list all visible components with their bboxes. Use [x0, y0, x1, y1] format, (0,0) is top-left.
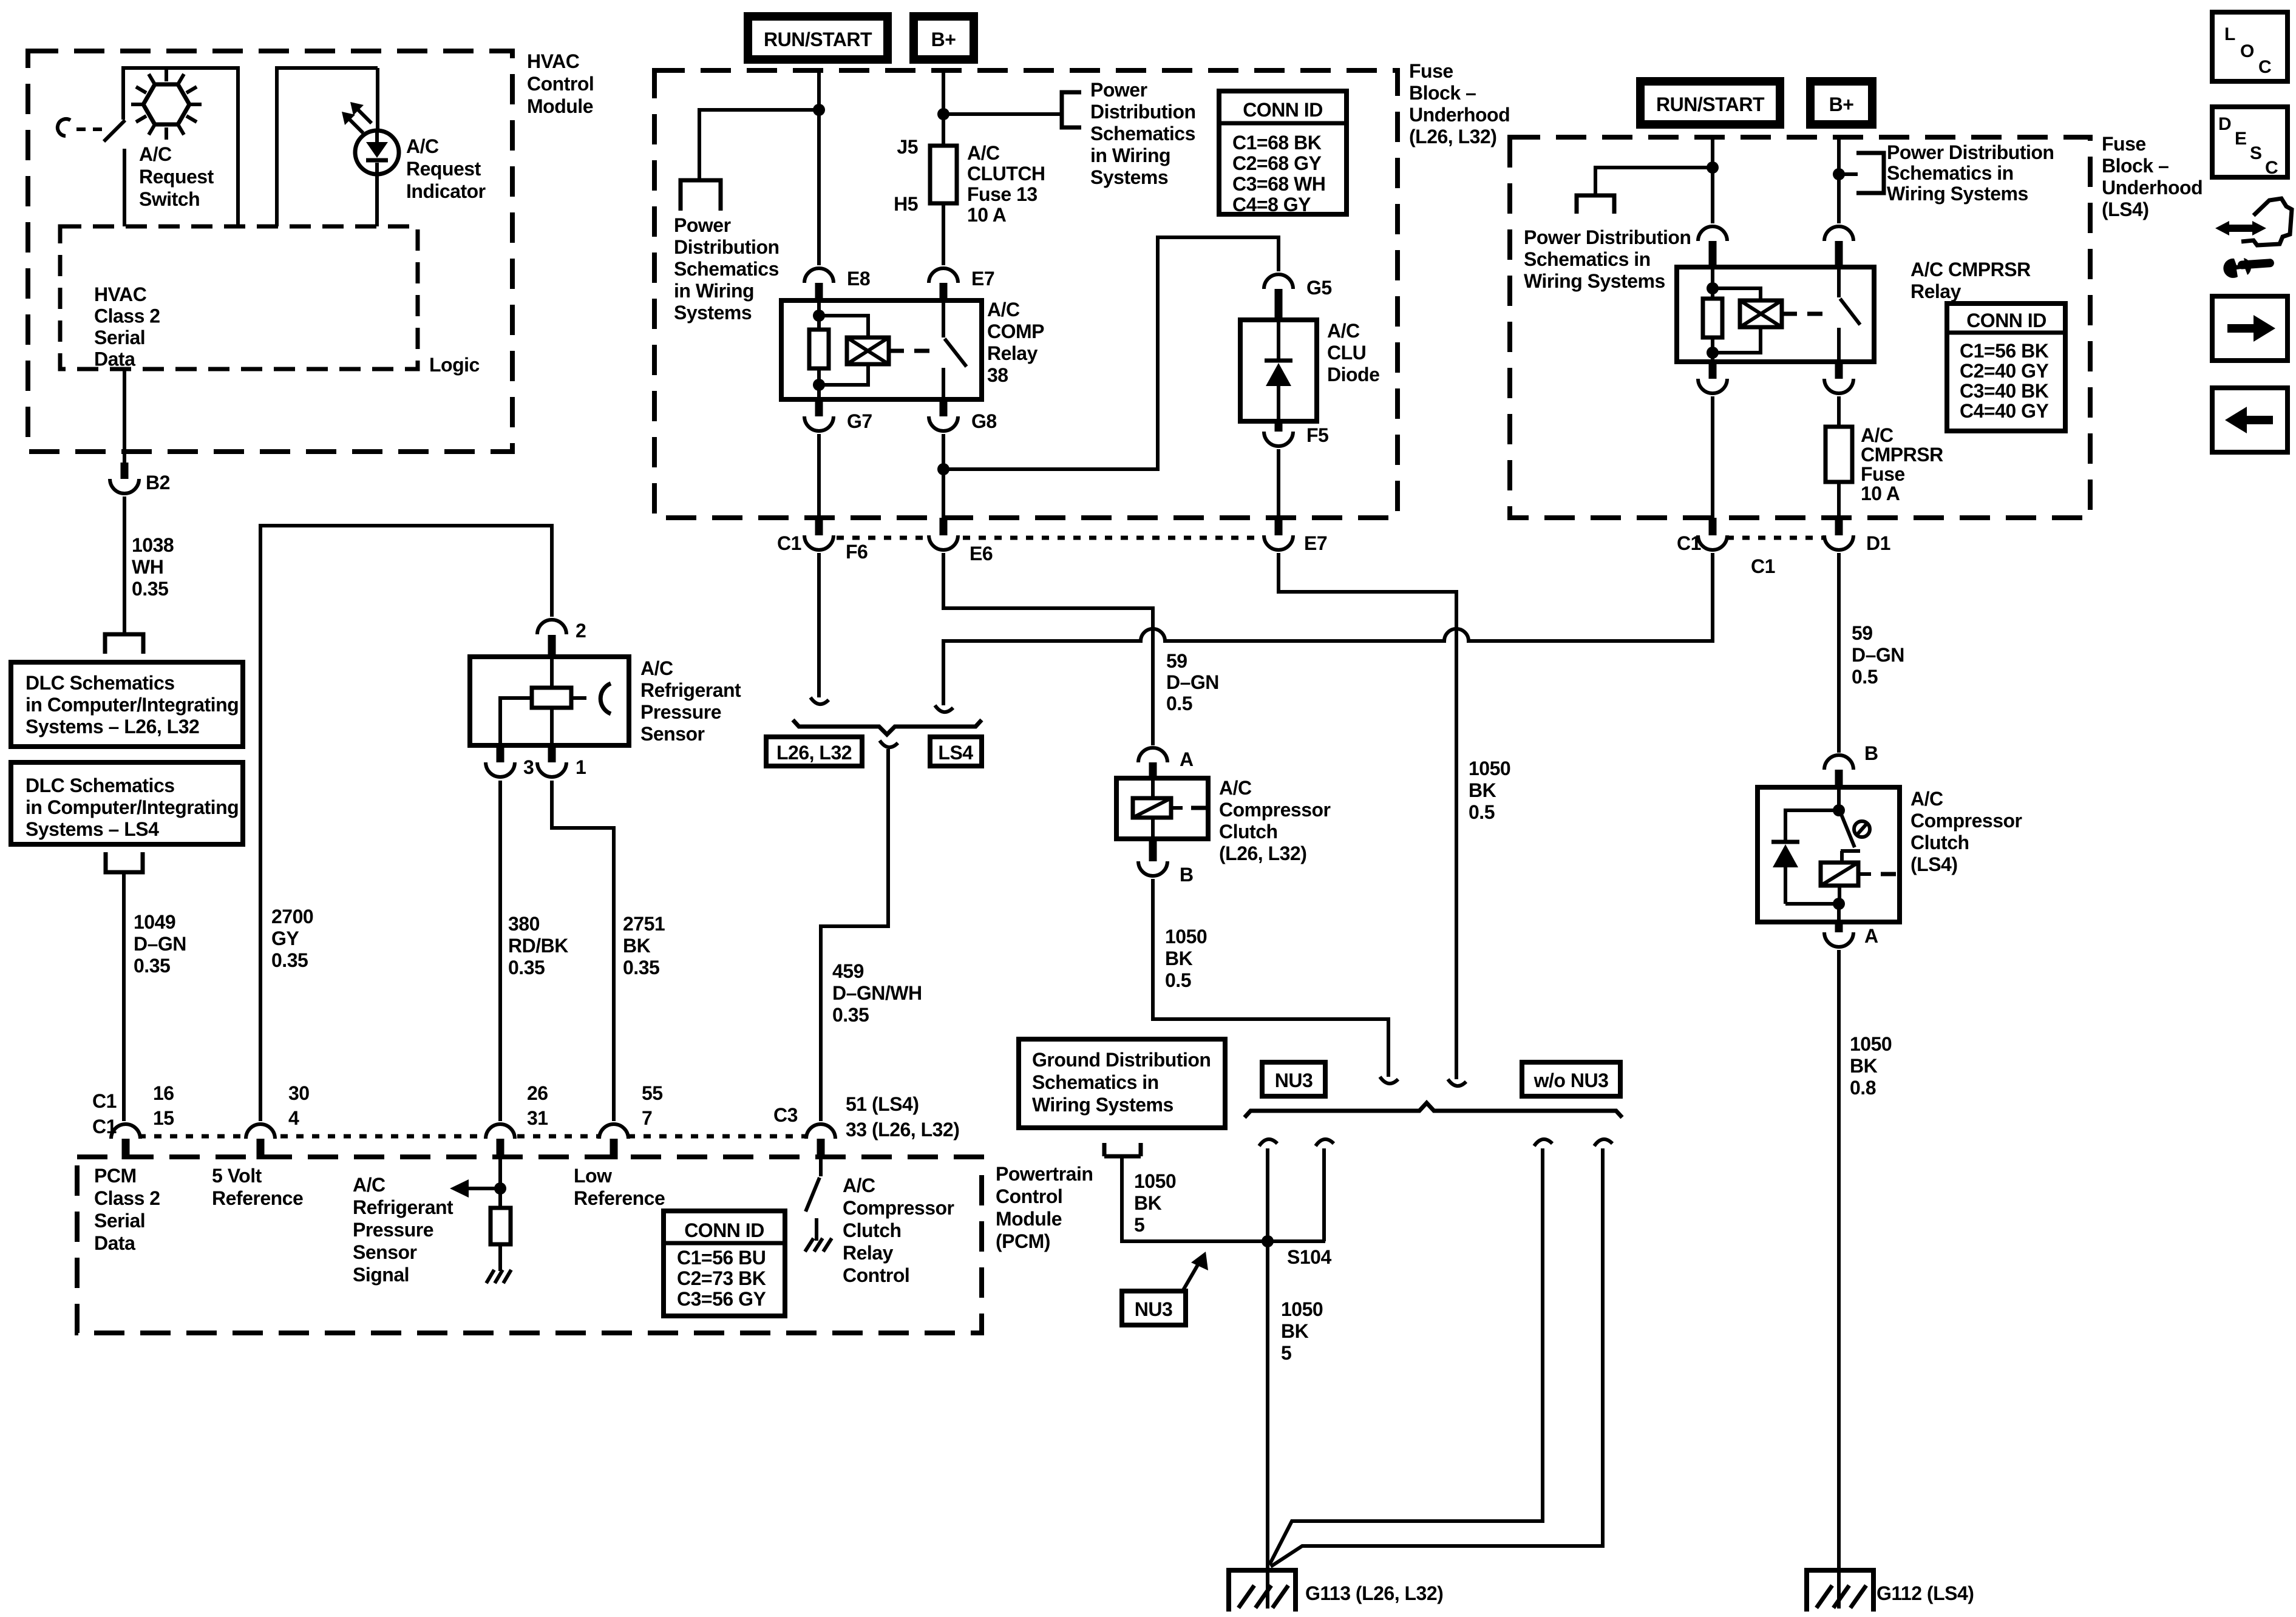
- DLC Schematics box LS4: [11, 762, 243, 844]
- svg-text:G112 (LS4): G112 (LS4): [1877, 1582, 1974, 1604]
- option tag NU3 (top): [1262, 1062, 1325, 1096]
- svg-text:0.35: 0.35: [508, 957, 545, 978]
- svg-text:C3=56 GY: C3=56 GY: [677, 1288, 766, 1310]
- svg-text:Systems – LS4: Systems – LS4: [25, 818, 159, 840]
- svg-text:55: 55: [642, 1082, 663, 1104]
- svg-text:A/C: A/C: [967, 142, 1000, 164]
- Fuse Block Underhood (L26,L32) dashed box: [654, 60, 1510, 518]
- svg-text:G113 (L26, L32): G113 (L26, L32): [1305, 1582, 1443, 1604]
- connector C1 (right block): [1677, 518, 1775, 577]
- svg-text:Block –: Block –: [1409, 82, 1476, 104]
- svg-text:RD/BK: RD/BK: [508, 935, 568, 957]
- connector B of clutch (LS4): [1824, 742, 1878, 788]
- svg-text:C: C: [2258, 57, 2272, 77]
- hook start of 459 wire: [880, 741, 898, 747]
- svg-text:A/C: A/C: [1861, 424, 1894, 446]
- wire 380 RD/BK 0.35: [500, 781, 568, 1121]
- back arrow icon box: [2212, 388, 2288, 452]
- A/C Request Switch S1: [104, 68, 238, 226]
- svg-text:E8: E8: [847, 268, 870, 290]
- svg-text:E7: E7: [971, 268, 994, 290]
- node: B+ branch junction (right): [1833, 168, 1845, 180]
- svg-text:Sensor: Sensor: [640, 723, 705, 745]
- svg-text:B: B: [1180, 864, 1194, 886]
- PCM connector pin 30/4: [246, 1082, 310, 1159]
- wire fuse to D1: [1837, 482, 1841, 519]
- svg-text:Block –: Block –: [2102, 155, 2169, 177]
- connector G5: [1264, 274, 1332, 321]
- PCM pressure sensor signal network: [450, 1158, 511, 1283]
- svg-text:5 Volt: 5 Volt: [212, 1165, 262, 1187]
- svg-text:D1: D1: [1866, 532, 1890, 554]
- svg-text:NU3: NU3: [1135, 1298, 1173, 1320]
- svg-text:(LS4): (LS4): [2102, 198, 2149, 220]
- svg-text:10 A: 10 A: [1861, 483, 1900, 504]
- svg-text:BK: BK: [1281, 1320, 1309, 1342]
- wire RUN/START to relay E8: [817, 70, 821, 265]
- svg-text:0.5: 0.5: [1165, 969, 1191, 991]
- svg-text:D: D: [2218, 114, 2232, 134]
- svg-text:in Wiring: in Wiring: [1090, 144, 1170, 166]
- svg-text:Serial: Serial: [94, 327, 145, 348]
- wire G8 to E6: [942, 434, 945, 520]
- svg-text:31: 31: [527, 1107, 548, 1129]
- svg-text:Relay: Relay: [987, 342, 1038, 364]
- svg-text:59: 59: [1852, 622, 1873, 644]
- node: RUN/START branch junction (right): [1707, 161, 1719, 174]
- svg-text:C: C: [2265, 158, 2278, 178]
- svg-text:C1: C1: [92, 1090, 117, 1112]
- svg-text:L: L: [2224, 24, 2235, 44]
- svg-text:Compressor: Compressor: [1911, 810, 2022, 832]
- connector A of clutch (L26,L32): [1138, 748, 1194, 779]
- wire 459 D-GN/WH 0.35 to PCM C3: [821, 749, 922, 1121]
- svg-text:D–GN: D–GN: [1852, 644, 1904, 666]
- svg-text:Distribution: Distribution: [674, 236, 779, 258]
- svg-text:C3: C3: [773, 1104, 798, 1126]
- svg-text:Underhood: Underhood: [1409, 104, 1510, 126]
- svg-text:CLUTCH: CLUTCH: [967, 163, 1045, 185]
- svg-text:0.5: 0.5: [1166, 693, 1192, 714]
- forward arrow icon box: [2212, 296, 2288, 361]
- svg-text:5: 5: [1281, 1342, 1291, 1364]
- NU3 callout with arrow: [1122, 1252, 1208, 1325]
- svg-text:A/C: A/C: [406, 135, 439, 157]
- wire relay coil to C1 (right): [1711, 396, 1714, 520]
- svg-text:0.35: 0.35: [271, 949, 308, 971]
- ref symbol below ground distribution: [1104, 1143, 1141, 1156]
- svg-text:Distribution: Distribution: [1090, 101, 1196, 123]
- wire 1038 WH 0.35: [124, 497, 174, 633]
- LOC icon box: [2212, 12, 2288, 81]
- DESC icon box: [2212, 107, 2288, 178]
- svg-text:Underhood: Underhood: [2102, 177, 2203, 198]
- svg-text:Clutch: Clutch: [1911, 832, 1969, 853]
- wire branch to power distribution bracket (right): [1839, 172, 1858, 176]
- svg-text:S: S: [2250, 143, 2262, 163]
- svg-text:A: A: [1180, 748, 1194, 770]
- connector G7: [804, 398, 872, 432]
- svg-text:C1: C1: [777, 532, 801, 554]
- wire E6 to A/C compressor clutch A (L26,L32): [943, 553, 1153, 745]
- svg-text:in Wiring: in Wiring: [674, 280, 754, 302]
- svg-text:Schematics: Schematics: [674, 258, 779, 280]
- relay K2: A/C CMPRSR Relay: [1677, 259, 2031, 362]
- connector B2: [110, 463, 170, 493]
- PCM relay control switch to ground: [805, 1158, 954, 1286]
- svg-text:B: B: [1864, 742, 1878, 764]
- svg-text:A/C: A/C: [1911, 788, 1943, 810]
- svg-text:Control: Control: [527, 73, 594, 95]
- svg-text:Serial: Serial: [94, 1210, 145, 1232]
- svg-text:BK: BK: [1134, 1192, 1162, 1214]
- svg-text:Refrigerant: Refrigerant: [640, 679, 741, 701]
- relay terminal connector (switch, right): [1824, 226, 1853, 268]
- svg-text:1050: 1050: [1281, 1298, 1323, 1320]
- svg-text:A: A: [1864, 925, 1878, 947]
- svg-text:A/C: A/C: [843, 1175, 875, 1196]
- connector G8: [929, 398, 997, 432]
- A/C Compressor Clutch (L26, L32): [1116, 777, 1331, 864]
- fuse F2: A/C CMPRSR Fuse 10A: [1826, 424, 1943, 504]
- svg-text:Refrigerant: Refrigerant: [353, 1196, 453, 1218]
- svg-text:1050: 1050: [1850, 1033, 1892, 1055]
- PCM dashed box: [77, 1157, 982, 1333]
- svg-text:459: 459: [832, 960, 864, 982]
- svg-text:1: 1: [576, 756, 586, 778]
- svg-text:E6: E6: [970, 543, 993, 564]
- svg-text:A/C: A/C: [353, 1174, 385, 1196]
- svg-text:Fuse 13: Fuse 13: [967, 183, 1038, 205]
- svg-text:Indicator: Indicator: [406, 180, 486, 202]
- PCM connector pin 26/31: [486, 1082, 548, 1159]
- svg-text:A/C: A/C: [1327, 320, 1360, 342]
- svg-text:Data: Data: [94, 1232, 135, 1254]
- svg-text:0.35: 0.35: [623, 957, 659, 978]
- svg-text:HVAC: HVAC: [527, 50, 580, 72]
- hook end of 1050 BK lead: [1448, 1079, 1466, 1086]
- svg-text:A/C: A/C: [1219, 777, 1252, 799]
- diagnostic icon (arrow / connector / wrench): [2215, 198, 2292, 278]
- svg-text:D–GN: D–GN: [134, 933, 186, 955]
- svg-text:Class 2: Class 2: [94, 305, 160, 327]
- connector E8: [804, 268, 870, 302]
- svg-text:C4=8 GY: C4=8 GY: [1232, 194, 1311, 215]
- svg-text:C2=68 GY: C2=68 GY: [1232, 152, 1321, 174]
- wire B+ (right): [1837, 139, 1841, 223]
- svg-text:0.8: 0.8: [1850, 1077, 1876, 1099]
- wire RUN/START to relay (right): [1711, 139, 1714, 223]
- wire D1 to clutch B (LS4) 59 D-GN 0.5: [1839, 553, 1904, 753]
- svg-text:C1=68 BK: C1=68 BK: [1232, 132, 1322, 154]
- svg-text:BK: BK: [1469, 779, 1496, 801]
- svg-text:J5: J5: [897, 136, 918, 158]
- svg-text:Clutch: Clutch: [843, 1219, 902, 1241]
- svg-text:A/C: A/C: [139, 143, 172, 165]
- B+ feed header (right): [1806, 77, 1877, 129]
- svg-text:2700: 2700: [271, 906, 313, 927]
- PCM connector pin 55/7: [599, 1082, 663, 1159]
- svg-text:Schematics in: Schematics in: [1524, 248, 1651, 270]
- svg-text:Systems: Systems: [674, 302, 752, 324]
- svg-text:3: 3: [523, 756, 534, 778]
- svg-text:(L26, L32): (L26, L32): [1219, 842, 1306, 864]
- wire 1050 BK 0.8 to G112: [1839, 950, 1892, 1609]
- wire clutch B 1050 BK 0.5 to splice: [1153, 879, 1388, 1077]
- svg-text:16: 16: [153, 1082, 174, 1104]
- svg-text:CONN ID: CONN ID: [1966, 310, 2046, 331]
- connector pin 2 of pressure sensor: [537, 620, 586, 659]
- svg-text:51 (LS4): 51 (LS4): [846, 1093, 919, 1115]
- svg-text:NU3: NU3: [1275, 1070, 1313, 1091]
- svg-text:C2=73 BK: C2=73 BK: [677, 1267, 766, 1289]
- svg-text:C3=68 WH: C3=68 WH: [1232, 173, 1325, 195]
- svg-text:Relay: Relay: [843, 1242, 894, 1264]
- svg-text:(PCM): (PCM): [996, 1230, 1050, 1252]
- svg-text:G8: G8: [971, 410, 997, 432]
- hook end clutch B lead: [1380, 1077, 1398, 1083]
- node: RUN/START branch junction: [813, 104, 825, 116]
- wire F5 to E7 connector: [1277, 449, 1280, 520]
- svg-text:Switch: Switch: [139, 188, 200, 210]
- svg-text:30: 30: [288, 1082, 310, 1104]
- svg-text:Sensor: Sensor: [353, 1241, 417, 1263]
- Fuse Block Underhood (LS4) dashed box: [1510, 133, 2203, 518]
- wire 1050 BK 5 from ground distribution: [1122, 1156, 1325, 1241]
- hook end of F6 tail: [810, 697, 829, 704]
- svg-text:COMP: COMP: [987, 320, 1044, 342]
- svg-text:F6: F6: [846, 541, 868, 563]
- node: B+ branch junction: [937, 108, 949, 120]
- power distribution ref symbol (bracket): [1062, 79, 1196, 188]
- connector E7: [929, 268, 994, 302]
- svg-text:in Computer/Integrating: in Computer/Integrating: [25, 796, 239, 818]
- wire fuse to E7: [942, 203, 945, 265]
- svg-text:(LS4): (LS4): [1911, 853, 1958, 875]
- B+ feed header (left): [909, 12, 978, 64]
- PCM connector dotted row: [123, 1134, 823, 1139]
- svg-text:D–GN/WH: D–GN/WH: [832, 982, 922, 1004]
- svg-text:CLU: CLU: [1327, 342, 1366, 364]
- wire HVAC logic to B2: [123, 369, 126, 466]
- connector D1: [1824, 518, 1890, 554]
- svg-text:Schematics: Schematics: [1090, 123, 1195, 144]
- ground G113 (L26, L32): [1229, 1570, 1443, 1612]
- wire w/o NU3 lead 2 to G113: [1271, 1148, 1603, 1567]
- relay terminal connector (coil, right): [1698, 226, 1727, 268]
- svg-text:(L26, L32): (L26, L32): [1409, 126, 1496, 147]
- svg-text:Control: Control: [996, 1185, 1062, 1207]
- Ground Distribution Schematics box: [1019, 1039, 1225, 1128]
- svg-text:BK: BK: [623, 935, 651, 957]
- ground G112 (LS4): [1807, 1570, 1974, 1612]
- svg-text:Ground Distribution: Ground Distribution: [1032, 1049, 1211, 1071]
- svg-text:Power Distribution: Power Distribution: [1524, 226, 1691, 248]
- svg-text:Wiring Systems: Wiring Systems: [1887, 183, 2028, 205]
- connector C1/F6: [777, 518, 868, 563]
- svg-text:RUN/START: RUN/START: [1656, 93, 1765, 115]
- svg-text:w/o NU3: w/o NU3: [1533, 1070, 1609, 1091]
- connector row dotted (right block): [1727, 536, 1826, 540]
- CONN ID table (PCM): [664, 1211, 785, 1316]
- svg-text:O: O: [2240, 41, 2254, 61]
- hook end of LS4 relay control branch: [935, 705, 953, 712]
- wire 2700 GY 0.35: [260, 526, 552, 1121]
- power distribution ref symbol (right block left): [1524, 195, 1691, 292]
- svg-text:Pressure: Pressure: [640, 701, 721, 723]
- svg-text:G5: G5: [1306, 277, 1332, 299]
- svg-text:4: 4: [288, 1107, 299, 1129]
- svg-text:Reference: Reference: [574, 1187, 665, 1209]
- A/C Compressor Clutch (LS4): [1758, 787, 2022, 922]
- svg-text:0.35: 0.35: [132, 578, 168, 600]
- connector E7 (diode leg): [1264, 518, 1327, 554]
- node: diode tap junction: [937, 463, 949, 475]
- svg-text:Wiring Systems: Wiring Systems: [1032, 1094, 1173, 1116]
- connector E6: [929, 518, 993, 564]
- svg-text:Power Distribution: Power Distribution: [1887, 141, 2054, 163]
- svg-text:Compressor: Compressor: [843, 1197, 954, 1219]
- svg-text:1049: 1049: [134, 911, 175, 933]
- connector A of clutch (LS4): [1824, 922, 1878, 947]
- svg-text:DLC Schematics: DLC Schematics: [25, 672, 175, 694]
- diode D1: A/C CLU Diode: [1240, 320, 1379, 421]
- svg-text:Request: Request: [406, 158, 481, 180]
- svg-text:Module: Module: [996, 1208, 1062, 1230]
- svg-text:Powertrain: Powertrain: [996, 1163, 1093, 1185]
- svg-text:BK: BK: [1850, 1055, 1878, 1077]
- DLC Schematics box L26,L32: [11, 662, 243, 747]
- svg-text:Control: Control: [843, 1264, 909, 1286]
- ref symbol to DLC schematics (down): [105, 634, 143, 654]
- svg-text:A/C: A/C: [640, 657, 673, 679]
- svg-text:Schematics in: Schematics in: [1887, 162, 2014, 184]
- svg-text:C1=56 BU: C1=56 BU: [677, 1247, 766, 1269]
- svg-text:33 (L26, L32): 33 (L26, L32): [846, 1119, 959, 1141]
- svg-text:Schematics in: Schematics in: [1032, 1071, 1159, 1093]
- RUN/START feed header (right): [1636, 77, 1784, 129]
- svg-text:1050: 1050: [1134, 1170, 1176, 1192]
- Logic box: [60, 226, 480, 376]
- wire S104 1050 BK 5 to G113: [1268, 1241, 1323, 1609]
- svg-text:Low: Low: [574, 1165, 612, 1187]
- ref symbol from DLC schematics (up): [106, 852, 143, 872]
- svg-text:HVAC: HVAC: [94, 283, 147, 305]
- svg-text:Fuse: Fuse: [1861, 463, 1905, 485]
- svg-text:38: 38: [987, 364, 1008, 386]
- option tag LS4: [930, 737, 982, 766]
- svg-text:Data: Data: [94, 348, 135, 370]
- wire branch to power distribution ref (right block): [1595, 168, 1713, 195]
- wire B+ to fuse J5: [942, 70, 945, 146]
- wire E7 to ground lead 1050 BK: [1279, 553, 1510, 1079]
- fuse F1: A/C CLUTCH Fuse 13 10A: [894, 136, 1045, 226]
- svg-text:59: 59: [1166, 650, 1187, 672]
- PCM connector C1 pin 16/15: [92, 1082, 174, 1159]
- Powertrain Control Module (PCM) label: [996, 1163, 1093, 1252]
- svg-text:DLC Schematics: DLC Schematics: [25, 775, 175, 796]
- svg-text:1038: 1038: [132, 534, 174, 556]
- svg-text:C1: C1: [92, 1116, 117, 1137]
- svg-text:F5: F5: [1306, 424, 1328, 446]
- svg-text:CMPRSR: CMPRSR: [1861, 444, 1943, 466]
- svg-text:C1: C1: [1677, 532, 1701, 554]
- svg-text:A/C: A/C: [987, 299, 1020, 320]
- svg-text:5: 5: [1134, 1214, 1144, 1236]
- svg-text:Wiring Systems: Wiring Systems: [1524, 270, 1665, 292]
- svg-text:G7: G7: [847, 410, 872, 432]
- svg-text:B+: B+: [931, 29, 956, 50]
- svg-text:C3=40 BK: C3=40 BK: [1960, 380, 2049, 402]
- wire NU3 splice leads: [1266, 1148, 1269, 1241]
- wire branch to power distribution ref: [699, 110, 819, 180]
- PCM connector C3 pin 51/33: [773, 1093, 959, 1159]
- svg-text:Relay: Relay: [1911, 280, 1961, 302]
- CONN ID table (L26,L32 fuse block): [1219, 91, 1347, 215]
- svg-text:B2: B2: [146, 472, 170, 493]
- svg-text:380: 380: [508, 913, 540, 935]
- svg-text:B+: B+: [1829, 93, 1854, 115]
- wire G7 to F6: [817, 434, 821, 520]
- svg-text:H5: H5: [894, 193, 918, 215]
- svg-text:0.35: 0.35: [832, 1004, 869, 1026]
- power distribution ref bracket (right): [1856, 141, 2054, 205]
- svg-text:Diode: Diode: [1327, 364, 1379, 385]
- svg-text:Class 2: Class 2: [94, 1187, 160, 1209]
- switch actuator dashed lead: [58, 119, 103, 136]
- svg-text:Systems – L26, L32: Systems – L26, L32: [25, 716, 199, 737]
- wire 59 D-GN 0.5 label (left): [1166, 650, 1219, 714]
- svg-text:Fuse: Fuse: [1409, 60, 1453, 82]
- connector pin 1: [537, 745, 586, 778]
- connector row C1 (left block) dotted line: [805, 536, 1279, 540]
- option tag L26, L32: [766, 737, 862, 766]
- svg-text:GY: GY: [271, 927, 299, 949]
- wire 2751 BK 0.35: [552, 781, 665, 1121]
- svg-text:WH: WH: [132, 556, 163, 578]
- PCM internal labels: [94, 1165, 160, 1254]
- svg-text:2: 2: [576, 620, 586, 642]
- svg-text:C1: C1: [1751, 555, 1775, 577]
- connector pin 3: [486, 745, 534, 778]
- svg-text:CONN ID: CONN ID: [1243, 99, 1323, 121]
- svg-text:Reference: Reference: [212, 1187, 303, 1209]
- wire relay switch to fuse (right): [1837, 396, 1841, 427]
- svg-text:BK: BK: [1165, 947, 1193, 969]
- svg-text:26: 26: [527, 1082, 548, 1104]
- option tag w/o NU3: [1522, 1062, 1620, 1096]
- connector F5: [1264, 420, 1328, 446]
- svg-text:1050: 1050: [1469, 758, 1510, 779]
- svg-text:C4=40 GY: C4=40 GY: [1960, 400, 2048, 422]
- svg-text:Pressure: Pressure: [353, 1219, 433, 1241]
- connector B of clutch (L26,L32): [1138, 839, 1194, 886]
- svg-text:E: E: [2235, 129, 2247, 149]
- svg-text:A/C CMPRSR: A/C CMPRSR: [1911, 259, 2031, 280]
- wire branch to power distribution ref (right): [943, 112, 1062, 116]
- svg-text:Module: Module: [527, 95, 593, 117]
- svg-text:Systems: Systems: [1090, 166, 1168, 188]
- wire C1 to LS4 relay control (long horizontal with hops): [943, 553, 1713, 705]
- wire w/o NU3 lead 1 to G113: [1269, 1148, 1543, 1565]
- svg-text:Signal: Signal: [353, 1264, 409, 1286]
- A/C Refrigerant Pressure Sensor B1: [470, 657, 741, 745]
- HVAC Control Module box: [28, 50, 594, 452]
- svg-text:PCM: PCM: [94, 1165, 137, 1187]
- svg-text:Request: Request: [139, 166, 214, 188]
- svg-text:C1=56 BK: C1=56 BK: [1960, 340, 2049, 362]
- svg-text:0.5: 0.5: [1852, 666, 1878, 688]
